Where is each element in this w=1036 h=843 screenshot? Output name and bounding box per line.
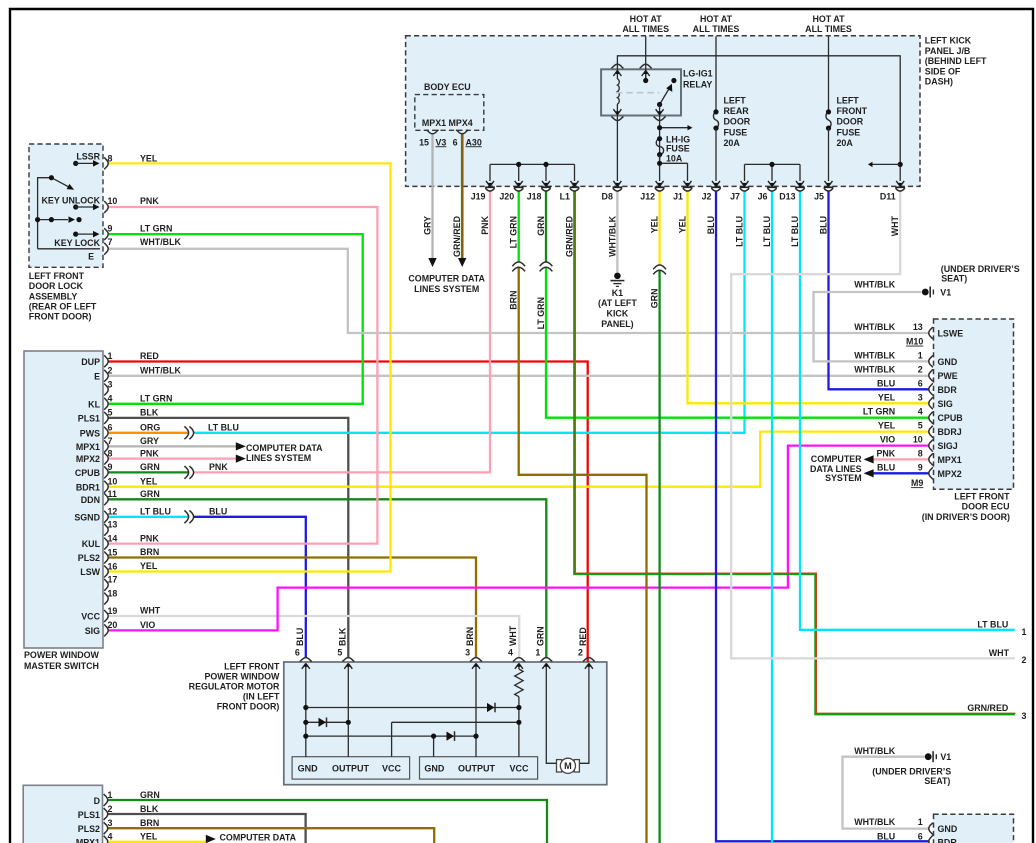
svg-text:PLS1: PLS1 — [78, 414, 100, 424]
svg-text:J12: J12 — [640, 192, 655, 202]
svg-text:WHT/BLK: WHT/BLK — [140, 237, 182, 247]
svg-text:12: 12 — [108, 507, 118, 517]
svg-text:3: 3 — [465, 648, 470, 658]
svg-text:PNK: PNK — [140, 196, 159, 206]
svg-text:KUL: KUL — [82, 539, 101, 549]
svg-text:5: 5 — [918, 421, 923, 431]
svg-text:4: 4 — [108, 394, 113, 404]
svg-text:BODY ECU: BODY ECU — [424, 82, 471, 92]
svg-text:8: 8 — [108, 448, 113, 458]
svg-text:SIGJ: SIGJ — [938, 441, 958, 451]
svg-text:8: 8 — [918, 448, 923, 458]
svg-text:REGULATOR MOTOR: REGULATOR MOTOR — [189, 681, 280, 691]
svg-text:COMPUTER DATA: COMPUTER DATA — [220, 832, 297, 842]
svg-text:2: 2 — [108, 804, 113, 814]
svg-text:MPX2: MPX2 — [76, 454, 100, 464]
svg-text:WHT/BLK: WHT/BLK — [854, 364, 896, 374]
svg-text:9: 9 — [108, 462, 113, 472]
svg-text:GRN: GRN — [536, 626, 546, 646]
svg-text:LT BLU: LT BLU — [735, 216, 745, 247]
svg-text:SEAT): SEAT) — [924, 776, 950, 786]
svg-text:LEFT FRONT: LEFT FRONT — [29, 271, 85, 281]
svg-text:ALL TIMES: ALL TIMES — [805, 24, 852, 34]
svg-text:LT GRN: LT GRN — [140, 394, 172, 404]
svg-text:RELAY: RELAY — [683, 79, 712, 89]
svg-text:YEL: YEL — [140, 476, 158, 486]
svg-text:LT BLU: LT BLU — [762, 216, 772, 247]
svg-text:GND: GND — [938, 357, 958, 367]
svg-text:LEFT KICK: LEFT KICK — [925, 36, 972, 46]
svg-text:FRONT DOOR): FRONT DOOR) — [217, 701, 280, 711]
svg-text:9: 9 — [108, 223, 113, 233]
svg-text:WHT/BLK: WHT/BLK — [854, 322, 896, 332]
svg-text:MPX1 MPX4: MPX1 MPX4 — [422, 118, 473, 128]
svg-text:GRN/RED: GRN/RED — [565, 215, 575, 257]
svg-text:M10: M10 — [906, 337, 923, 347]
svg-text:GRN/RED: GRN/RED — [967, 703, 1009, 713]
svg-text:PNK: PNK — [209, 462, 228, 472]
svg-text:1: 1 — [108, 790, 113, 800]
svg-text:LT GRN: LT GRN — [509, 216, 519, 248]
svg-text:BLU: BLU — [209, 507, 227, 517]
svg-text:6: 6 — [453, 137, 458, 147]
svg-text:BRN: BRN — [140, 547, 159, 557]
svg-text:DOOR: DOOR — [837, 117, 864, 127]
svg-text:GRN: GRN — [140, 489, 160, 499]
svg-text:VCC: VCC — [509, 763, 529, 773]
svg-text:J18: J18 — [527, 192, 542, 202]
svg-text:DOOR: DOOR — [724, 117, 751, 127]
svg-text:J20: J20 — [499, 192, 514, 202]
svg-text:LT GRN: LT GRN — [863, 407, 895, 417]
svg-text:J5: J5 — [814, 192, 824, 202]
svg-text:5: 5 — [108, 408, 113, 418]
svg-text:10A: 10A — [666, 153, 683, 163]
svg-text:2: 2 — [108, 366, 113, 376]
svg-text:PNK: PNK — [140, 448, 159, 458]
svg-text:M9: M9 — [911, 478, 923, 488]
svg-text:ALL TIMES: ALL TIMES — [693, 24, 740, 34]
svg-text:GND: GND — [938, 824, 958, 834]
svg-text:GRN/RED: GRN/RED — [452, 215, 462, 257]
svg-text:DASH): DASH) — [925, 77, 953, 87]
svg-text:MPX1: MPX1 — [76, 442, 100, 452]
svg-text:DUP: DUP — [81, 357, 100, 367]
svg-text:BLU: BLU — [877, 378, 895, 388]
svg-text:J7: J7 — [730, 192, 740, 202]
svg-text:COMPUTER DATA: COMPUTER DATA — [246, 443, 323, 453]
svg-text:YEL: YEL — [878, 421, 896, 431]
svg-text:KICK: KICK — [607, 309, 629, 319]
svg-text:VCC: VCC — [81, 612, 100, 622]
svg-text:GRN: GRN — [140, 462, 160, 472]
svg-text:4: 4 — [918, 407, 923, 417]
svg-text:LT BLU: LT BLU — [790, 216, 800, 247]
svg-text:10: 10 — [108, 477, 118, 487]
svg-text:6: 6 — [295, 648, 300, 658]
svg-text:HOT AT: HOT AT — [700, 14, 733, 24]
svg-text:6: 6 — [918, 378, 923, 388]
svg-text:LG-IG1: LG-IG1 — [683, 69, 713, 79]
svg-text:MPX2: MPX2 — [938, 469, 962, 479]
svg-text:VCC: VCC — [382, 763, 402, 773]
svg-text:BRN: BRN — [140, 818, 159, 828]
svg-text:BLK: BLK — [140, 804, 159, 814]
svg-text:VIO: VIO — [880, 435, 895, 445]
svg-text:(IN LEFT: (IN LEFT — [243, 691, 280, 701]
svg-text:LEFT FRONT: LEFT FRONT — [954, 491, 1010, 501]
svg-text:SIG: SIG — [938, 399, 953, 409]
svg-text:ASSEMBLY: ASSEMBLY — [29, 291, 78, 301]
svg-text:9: 9 — [918, 462, 923, 472]
svg-text:LT BLU: LT BLU — [140, 507, 171, 517]
svg-text:WHT/BLK: WHT/BLK — [854, 280, 896, 290]
svg-text:5: 5 — [337, 648, 342, 658]
svg-text:BLU: BLU — [295, 628, 305, 646]
svg-text:WHT/BLK: WHT/BLK — [854, 817, 896, 827]
svg-text:GRN: GRN — [536, 216, 546, 236]
svg-text:YEL: YEL — [650, 215, 660, 233]
svg-text:15: 15 — [419, 137, 429, 147]
svg-text:BLK: BLK — [140, 408, 159, 418]
svg-text:1: 1 — [1022, 627, 1027, 637]
svg-text:3: 3 — [108, 818, 113, 828]
svg-text:PANEL): PANEL) — [601, 319, 633, 329]
svg-text:CPUB: CPUB — [938, 413, 963, 423]
svg-text:20A: 20A — [837, 138, 854, 148]
svg-text:BDRJ: BDRJ — [938, 427, 962, 437]
svg-text:MPX1: MPX1 — [76, 838, 100, 843]
svg-text:BRN: BRN — [509, 291, 519, 310]
svg-text:DOOR LOCK: DOOR LOCK — [29, 281, 84, 291]
svg-text:17: 17 — [108, 575, 118, 585]
svg-text:YEL: YEL — [140, 153, 158, 163]
svg-text:13: 13 — [913, 322, 923, 332]
svg-text:GRN: GRN — [650, 289, 660, 309]
svg-text:WHT/BLK: WHT/BLK — [854, 746, 896, 756]
svg-text:J6: J6 — [758, 192, 768, 202]
svg-text:SIG: SIG — [85, 626, 100, 636]
svg-text:8: 8 — [108, 153, 113, 163]
svg-text:J1: J1 — [673, 192, 683, 202]
svg-text:E: E — [88, 252, 94, 262]
svg-text:3: 3 — [918, 392, 923, 402]
svg-text:RED: RED — [578, 627, 588, 646]
svg-text:FUSE: FUSE — [724, 127, 748, 137]
svg-text:J2: J2 — [702, 192, 712, 202]
svg-text:LINES SYSTEM: LINES SYSTEM — [414, 284, 479, 294]
svg-text:11: 11 — [108, 489, 117, 499]
svg-text:LT GRN: LT GRN — [536, 297, 546, 329]
svg-text:1: 1 — [108, 351, 113, 361]
svg-text:WHT: WHT — [508, 625, 518, 646]
svg-text:1: 1 — [918, 350, 923, 360]
svg-text:3: 3 — [1022, 711, 1027, 721]
svg-text:LT BLU: LT BLU — [977, 619, 1008, 629]
svg-text:13: 13 — [108, 520, 118, 530]
svg-text:D8: D8 — [602, 192, 613, 202]
svg-text:COMPUTER: COMPUTER — [811, 454, 862, 464]
svg-text:L1: L1 — [560, 192, 570, 202]
svg-text:KL: KL — [88, 399, 100, 409]
svg-text:20A: 20A — [724, 138, 741, 148]
svg-text:FRONT DOOR): FRONT DOOR) — [29, 312, 92, 322]
svg-text:D: D — [94, 796, 101, 806]
svg-text:KEY LOCK: KEY LOCK — [54, 238, 100, 248]
svg-text:LSW: LSW — [80, 567, 100, 577]
svg-text:3: 3 — [108, 379, 113, 389]
svg-text:LT BLU: LT BLU — [208, 423, 239, 433]
svg-text:BLU: BLU — [877, 462, 895, 472]
svg-text:(AT LEFT: (AT LEFT — [598, 298, 637, 308]
svg-text:15: 15 — [108, 547, 118, 557]
svg-text:PLS1: PLS1 — [78, 810, 100, 820]
svg-text:(BEHIND LEFT: (BEHIND LEFT — [925, 56, 987, 66]
svg-text:ALL TIMES: ALL TIMES — [622, 24, 669, 34]
svg-text:7: 7 — [108, 237, 113, 247]
svg-text:V3: V3 — [436, 137, 447, 147]
svg-text:BDR1: BDR1 — [76, 482, 100, 492]
svg-text:PWE: PWE — [938, 371, 958, 381]
svg-text:PNK: PNK — [480, 215, 490, 234]
svg-text:20: 20 — [108, 620, 118, 630]
svg-text:PNK: PNK — [140, 533, 159, 543]
svg-text:2: 2 — [1022, 655, 1027, 665]
svg-text:2: 2 — [578, 648, 583, 658]
svg-text:6: 6 — [108, 423, 113, 433]
svg-text:YEL: YEL — [140, 832, 158, 842]
svg-text:MASTER SWITCH: MASTER SWITCH — [24, 661, 99, 671]
svg-text:10: 10 — [913, 435, 923, 445]
svg-text:J19: J19 — [471, 192, 486, 202]
svg-text:YEL: YEL — [878, 392, 896, 402]
svg-text:YEL: YEL — [140, 561, 158, 571]
svg-text:POWER WINDOW: POWER WINDOW — [204, 671, 280, 681]
svg-text:COMPUTER DATA: COMPUTER DATA — [408, 273, 485, 283]
svg-text:1: 1 — [535, 648, 540, 658]
svg-text:2: 2 — [918, 364, 923, 374]
svg-text:BRN: BRN — [465, 627, 475, 646]
svg-text:WHT: WHT — [890, 215, 900, 236]
svg-text:E: E — [94, 371, 100, 381]
svg-text:REAR: REAR — [724, 106, 750, 116]
svg-text:M: M — [564, 761, 572, 771]
svg-text:D11: D11 — [880, 192, 896, 202]
svg-text:10: 10 — [108, 196, 118, 206]
svg-text:D13: D13 — [779, 192, 795, 202]
svg-text:SEAT): SEAT) — [941, 274, 967, 284]
svg-text:FUSE: FUSE — [837, 127, 861, 137]
svg-text:V1: V1 — [940, 752, 951, 762]
svg-text:1: 1 — [918, 817, 923, 827]
svg-text:BDR: BDR — [938, 838, 958, 843]
svg-text:4: 4 — [508, 648, 513, 658]
svg-text:PNK: PNK — [876, 448, 895, 458]
svg-text:KEY UNLOCK: KEY UNLOCK — [41, 196, 100, 206]
svg-text:WHT/BLK: WHT/BLK — [854, 350, 896, 360]
svg-text:PANEL J/B: PANEL J/B — [925, 46, 971, 56]
svg-text:FUSE: FUSE — [666, 144, 690, 154]
svg-text:ORG: ORG — [140, 423, 160, 433]
svg-text:LSWE: LSWE — [938, 329, 964, 339]
svg-text:SIDE OF: SIDE OF — [925, 66, 961, 76]
svg-text:YEL: YEL — [678, 215, 688, 233]
svg-text:POWER WINDOW: POWER WINDOW — [24, 650, 100, 660]
svg-text:OUTPUT: OUTPUT — [458, 763, 496, 773]
svg-text:RED: RED — [140, 351, 159, 361]
svg-text:18: 18 — [108, 588, 118, 598]
svg-text:FRONT: FRONT — [837, 106, 868, 116]
svg-text:(IN DRIVER’S DOOR): (IN DRIVER’S DOOR) — [922, 512, 1010, 522]
svg-text:(REAR OF LEFT: (REAR OF LEFT — [29, 302, 97, 312]
svg-text:WHT/BLK: WHT/BLK — [607, 215, 617, 257]
svg-text:7: 7 — [108, 436, 113, 446]
svg-text:HOT AT: HOT AT — [812, 14, 845, 24]
svg-text:PLS2: PLS2 — [78, 553, 100, 563]
svg-text:VIO: VIO — [140, 620, 155, 630]
svg-text:14: 14 — [108, 533, 118, 543]
svg-text:BDR: BDR — [938, 385, 958, 395]
svg-text:SYSTEM: SYSTEM — [825, 473, 862, 483]
svg-text:PLS2: PLS2 — [78, 824, 100, 834]
svg-text:BLU: BLU — [706, 216, 716, 234]
svg-text:GRN: GRN — [140, 790, 160, 800]
svg-text:WHT/BLK: WHT/BLK — [140, 366, 182, 376]
svg-text:PWS: PWS — [80, 428, 100, 438]
svg-text:GRY: GRY — [140, 436, 159, 446]
svg-text:LINES SYSTEM: LINES SYSTEM — [246, 453, 311, 463]
svg-text:CPUB: CPUB — [75, 468, 100, 478]
svg-text:16: 16 — [108, 561, 118, 571]
svg-text:GND: GND — [424, 763, 445, 773]
svg-text:WHT: WHT — [989, 648, 1010, 658]
svg-text:BLU: BLU — [819, 216, 829, 234]
svg-text:LSSR: LSSR — [76, 152, 100, 162]
svg-text:19: 19 — [108, 606, 118, 616]
svg-text:SGND: SGND — [74, 512, 100, 522]
svg-text:MPX1: MPX1 — [938, 455, 962, 465]
svg-text:GND: GND — [298, 763, 319, 773]
svg-text:LEFT FRONT: LEFT FRONT — [224, 661, 280, 671]
svg-text:DDN: DDN — [81, 495, 100, 505]
svg-text:GRY: GRY — [423, 216, 433, 235]
svg-text:BLK: BLK — [338, 627, 348, 646]
svg-text:LEFT: LEFT — [724, 95, 747, 105]
svg-text:BLU: BLU — [877, 831, 895, 841]
svg-text:A30: A30 — [466, 137, 482, 147]
svg-text:K1: K1 — [612, 288, 623, 298]
svg-text:LT GRN: LT GRN — [140, 223, 172, 233]
svg-text:OUTPUT: OUTPUT — [332, 763, 370, 773]
svg-text:HOT AT: HOT AT — [630, 14, 663, 24]
svg-text:4: 4 — [108, 832, 113, 842]
svg-text:LEFT: LEFT — [837, 95, 860, 105]
svg-text:DOOR ECU: DOOR ECU — [962, 502, 1010, 512]
svg-text:WHT: WHT — [140, 606, 161, 616]
svg-text:V1: V1 — [940, 287, 951, 297]
svg-text:6: 6 — [918, 831, 923, 841]
